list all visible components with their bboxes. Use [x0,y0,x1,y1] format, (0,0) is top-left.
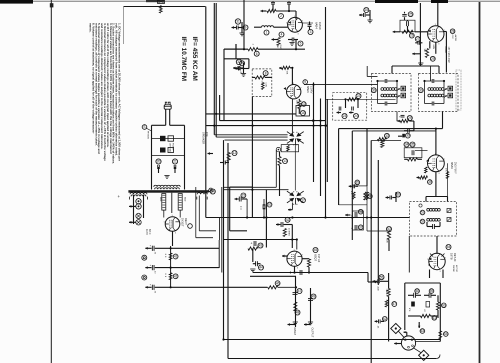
svg-text:+: + [251,242,253,246]
svg-text:12: 12 [233,151,237,155]
svg-text:4.9V: 4.9V [451,35,453,40]
svg-text:31: 31 [236,20,240,24]
svg-text:CRYSTAL: CRYSTAL [169,143,172,153]
svg-text:30: 30 [372,88,376,92]
svg-text:62: 62 [383,317,387,321]
svg-text:PHONO: PHONO [452,265,454,272]
svg-text:6. Volume control at maximum,: 6. Volume control at maximum, no signal … [91,23,95,134]
svg-text:P.M.: P.M. [205,132,209,137]
svg-text:9: 9 [245,26,247,30]
svg-text:IF= 10.7MC FM: IF= 10.7MC FM [180,37,187,82]
svg-text:55: 55 [380,275,384,279]
svg-text:4: 4 [281,33,283,37]
svg-text:21: 21 [173,160,177,164]
svg-text:FM RF: FM RF [318,22,322,30]
svg-text:42: 42 [286,218,290,222]
svg-text:PHONO: PHONO [147,131,149,139]
svg-text:CONV: CONV [309,86,313,94]
svg-text:60 C: 60 C [148,229,152,235]
svg-text:AUD: AUD [377,287,380,292]
svg-text:DET AF: DET AF [453,253,456,262]
svg-text:IF= 455 KC AM: IF= 455 KC AM [191,37,198,81]
svg-text:53: 53 [387,227,391,231]
svg-text:2ND FM IF: 2ND FM IF [453,162,456,174]
svg-text:51: 51 [421,211,425,215]
svg-text:38: 38 [368,194,372,198]
svg-text:6AU6: 6AU6 [444,47,448,54]
svg-text:5: 5 [300,42,302,46]
svg-text:35: 35 [411,143,415,147]
svg-text:+: + [351,226,353,230]
svg-text:25: 25 [365,8,369,12]
svg-text:27: 27 [416,37,420,41]
svg-text:FM: FM [276,45,278,48]
svg-text:60: 60 [442,303,446,307]
svg-text:43: 43 [259,244,263,248]
svg-text:6: 6 [256,52,258,56]
svg-text:44: 44 [259,266,263,270]
svg-text:1ST FM IF AMP: 1ST FM IF AMP [447,47,450,64]
svg-text:58: 58 [415,289,419,293]
svg-text:1: 1 [266,31,268,35]
svg-text:26: 26 [410,34,414,38]
svg-text:24: 24 [354,114,358,118]
svg-text:8: 8 [265,71,267,75]
svg-text:54: 54 [447,245,451,249]
svg-text:34: 34 [405,143,409,147]
svg-text:2: 2 [280,14,282,18]
svg-text:18: 18 [301,111,305,115]
svg-text:22K: 22K [386,239,388,243]
svg-text:.05: .05 [377,326,379,329]
svg-text:64: 64 [444,332,448,336]
svg-text:35: 35 [356,181,360,185]
svg-text:3: 3 [310,30,312,34]
svg-text:37: 37 [359,225,363,229]
svg-text:33: 33 [385,134,389,138]
svg-text:+: + [351,213,353,217]
svg-text:63: 63 [421,329,425,333]
svg-text:6V6GT: 6V6GT [293,328,296,336]
svg-text:30: 30 [406,134,410,138]
svg-text:10: 10 [302,102,306,106]
svg-text:23: 23 [343,114,347,118]
svg-text:AM FM: AM FM [454,35,457,42]
svg-text:28: 28 [451,29,455,33]
svg-text:47: 47 [298,289,302,293]
svg-text:1 MEG: 1 MEG [385,289,387,295]
svg-text:41: 41 [174,255,178,259]
svg-text:49: 49 [312,295,316,299]
svg-text:36: 36 [359,210,363,214]
svg-text:13: 13 [283,159,287,163]
svg-text:5000: 5000 [159,197,161,201]
svg-text:29: 29 [431,57,435,61]
svg-text:20: 20 [157,160,161,164]
svg-text:7: 7 [241,61,243,65]
svg-text:48: 48 [296,311,300,315]
svg-text:45: 45 [314,248,318,252]
svg-text:25: 25 [409,12,413,16]
svg-text:46: 46 [276,281,280,285]
svg-text:16: 16 [268,203,272,207]
svg-text:+: + [399,115,401,119]
svg-text:39: 39 [428,180,432,184]
svg-text:RECT: RECT [184,218,187,225]
svg-text:57: 57 [393,302,397,306]
svg-text:15: 15 [242,194,246,198]
svg-text:GRN: GRN [432,45,434,50]
svg-text:1ST AF: 1ST AF [317,254,320,263]
svg-text:+: + [296,271,298,275]
svg-text:52: 52 [421,220,425,224]
svg-text:59: 59 [430,289,434,293]
svg-text:22: 22 [357,94,361,98]
svg-text:50: 50 [396,193,400,197]
svg-text:.02: .02 [423,309,425,312]
svg-text:MOTOR: MOTOR [455,265,457,273]
svg-text:5000: 5000 [184,197,186,201]
svg-text:41: 41 [174,274,178,278]
svg-text:17: 17 [301,198,305,202]
svg-text:OUTPUT: OUTPUT [311,328,314,338]
svg-text:ments.: ments. [89,23,93,33]
svg-text:10 MEG: 10 MEG [288,228,290,236]
svg-text:30: 30 [419,88,423,92]
svg-text:9: 9 [304,80,306,84]
svg-text:S: S [143,125,145,129]
svg-text:150: 150 [423,49,425,52]
